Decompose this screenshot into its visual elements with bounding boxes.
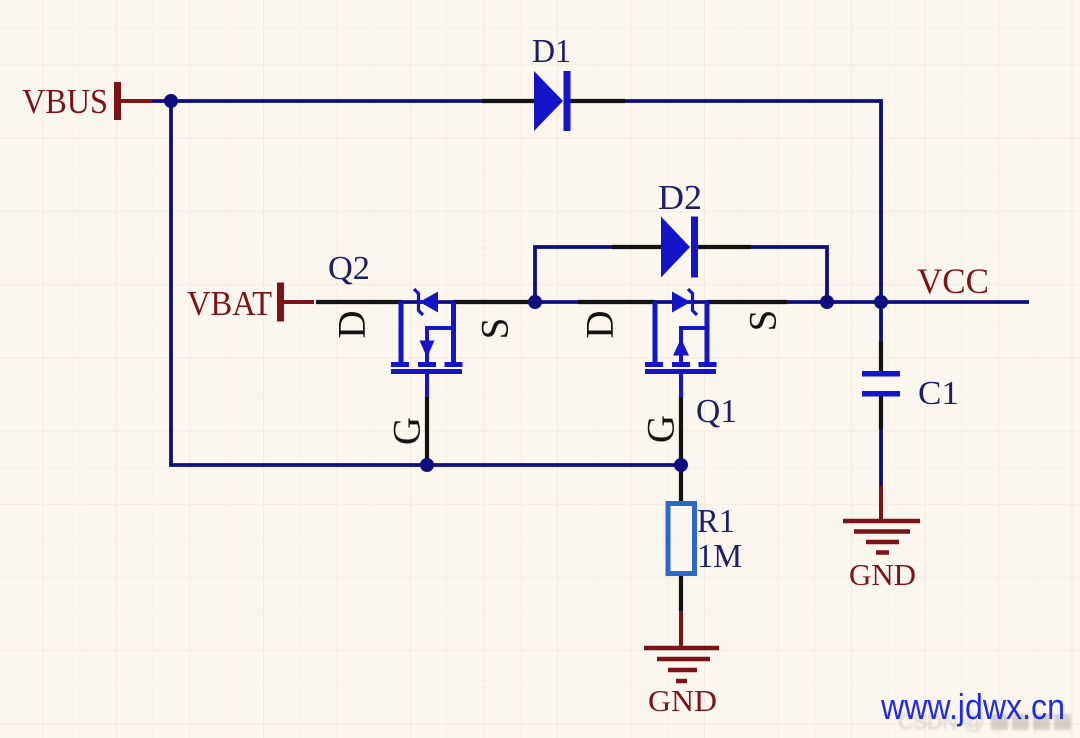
capacitor C1: [862, 371, 900, 397]
svg-text:C1: C1: [918, 375, 959, 412]
pin Q1 gate G: [679, 396, 683, 465]
pin label Q2 G: [386, 417, 429, 445]
transistor Q2: [391, 289, 463, 397]
pin Q2 source S: [454, 300, 531, 304]
diode D1: [534, 71, 571, 131]
power port VBUS: [114, 82, 152, 120]
svg-text:VBUS: VBUS: [22, 82, 108, 121]
pin D2 anode: [612, 245, 661, 249]
pin Q1 drain D: [578, 300, 655, 304]
resistor R1: [668, 504, 695, 574]
pin C1 bottom: [879, 397, 883, 430]
pin label Q1 G: [640, 415, 683, 443]
wire D2 anode branch: [535, 245, 613, 302]
svg-text:www.jdwx.cn: www.jdwx.cn: [880, 686, 1065, 727]
pin C1 top: [879, 341, 883, 371]
pin label Q2 D: [331, 310, 374, 338]
wire C1 to GND: [879, 429, 883, 488]
net label VBUS: [22, 82, 108, 121]
node junction VBUS: [164, 94, 178, 108]
designator D2: [658, 178, 702, 217]
watermark www.jdwx.cn: [880, 686, 1065, 727]
ground GND2 under R1: [644, 611, 719, 681]
svg-text:D1: D1: [532, 33, 571, 70]
pin Q2 gate G: [425, 396, 429, 465]
transistor Q1: [645, 289, 717, 397]
wire VCC to C1: [879, 302, 883, 341]
svg-text:R1: R1: [697, 503, 735, 540]
pin label Q1 S: [742, 310, 785, 332]
designator Q1: [696, 393, 737, 430]
pin D1 anode: [482, 99, 534, 103]
net label VBAT: [187, 284, 272, 323]
svg-text:VCC: VCC: [917, 261, 989, 301]
node junction Q2 gate: [420, 458, 434, 472]
watermark CSDN gray: [898, 711, 1071, 734]
wire VBUS horizontal: [150, 99, 482, 103]
pin D2 cathode: [698, 245, 751, 249]
pin D1 cathode: [570, 99, 625, 103]
svg-text:G: G: [386, 417, 429, 445]
designator D1: [532, 33, 571, 70]
net label VCC: [917, 261, 989, 301]
pin label Q2 S: [474, 318, 517, 340]
node junction Q2S/D2: [528, 295, 542, 309]
power port VBAT: [277, 283, 314, 322]
designator R1: [697, 503, 735, 540]
wire node A to Q1 drain: [529, 300, 580, 304]
pin R1 bottom: [679, 576, 683, 611]
svg-text:D: D: [579, 310, 622, 338]
svg-text:GND: GND: [648, 683, 717, 718]
wire VBUS vertical down left side: [169, 99, 173, 465]
pin label Q1 D: [579, 310, 622, 338]
svg-text:GND: GND: [849, 557, 916, 592]
svg-text:S: S: [742, 310, 785, 332]
svg-text:G: G: [640, 415, 683, 443]
pin Q2 drain D: [316, 300, 401, 304]
wire VCC horizontal: [786, 300, 1029, 304]
wire bottom gate net: [169, 463, 681, 467]
pin Q1 source S: [707, 300, 787, 304]
pin R1 top: [679, 465, 683, 501]
svg-text:D2: D2: [658, 178, 702, 217]
svg-text:Q1: Q1: [696, 393, 737, 430]
svg-text:VBAT: VBAT: [187, 284, 272, 323]
svg-text:Q2: Q2: [328, 250, 370, 287]
value 1M: [697, 538, 742, 575]
wire VCC vertical: [879, 99, 883, 302]
svg-text:S: S: [474, 318, 517, 340]
svg-text:1M: 1M: [697, 538, 742, 575]
net label GND1: [849, 557, 916, 592]
ground GND1 under C1: [843, 486, 920, 553]
node junction VCC/C1: [874, 295, 888, 309]
diode D2: [661, 217, 698, 278]
designator C1: [918, 375, 959, 412]
node junction D2/VCC: [820, 295, 834, 309]
svg-text:D: D: [331, 310, 374, 338]
designator Q2: [328, 250, 370, 287]
node junction Q1 gate: [674, 458, 688, 472]
wire D2 cathode branch: [751, 245, 827, 302]
wire D1 cathode to VCC corner: [625, 99, 881, 103]
net label GND2: [648, 683, 717, 718]
